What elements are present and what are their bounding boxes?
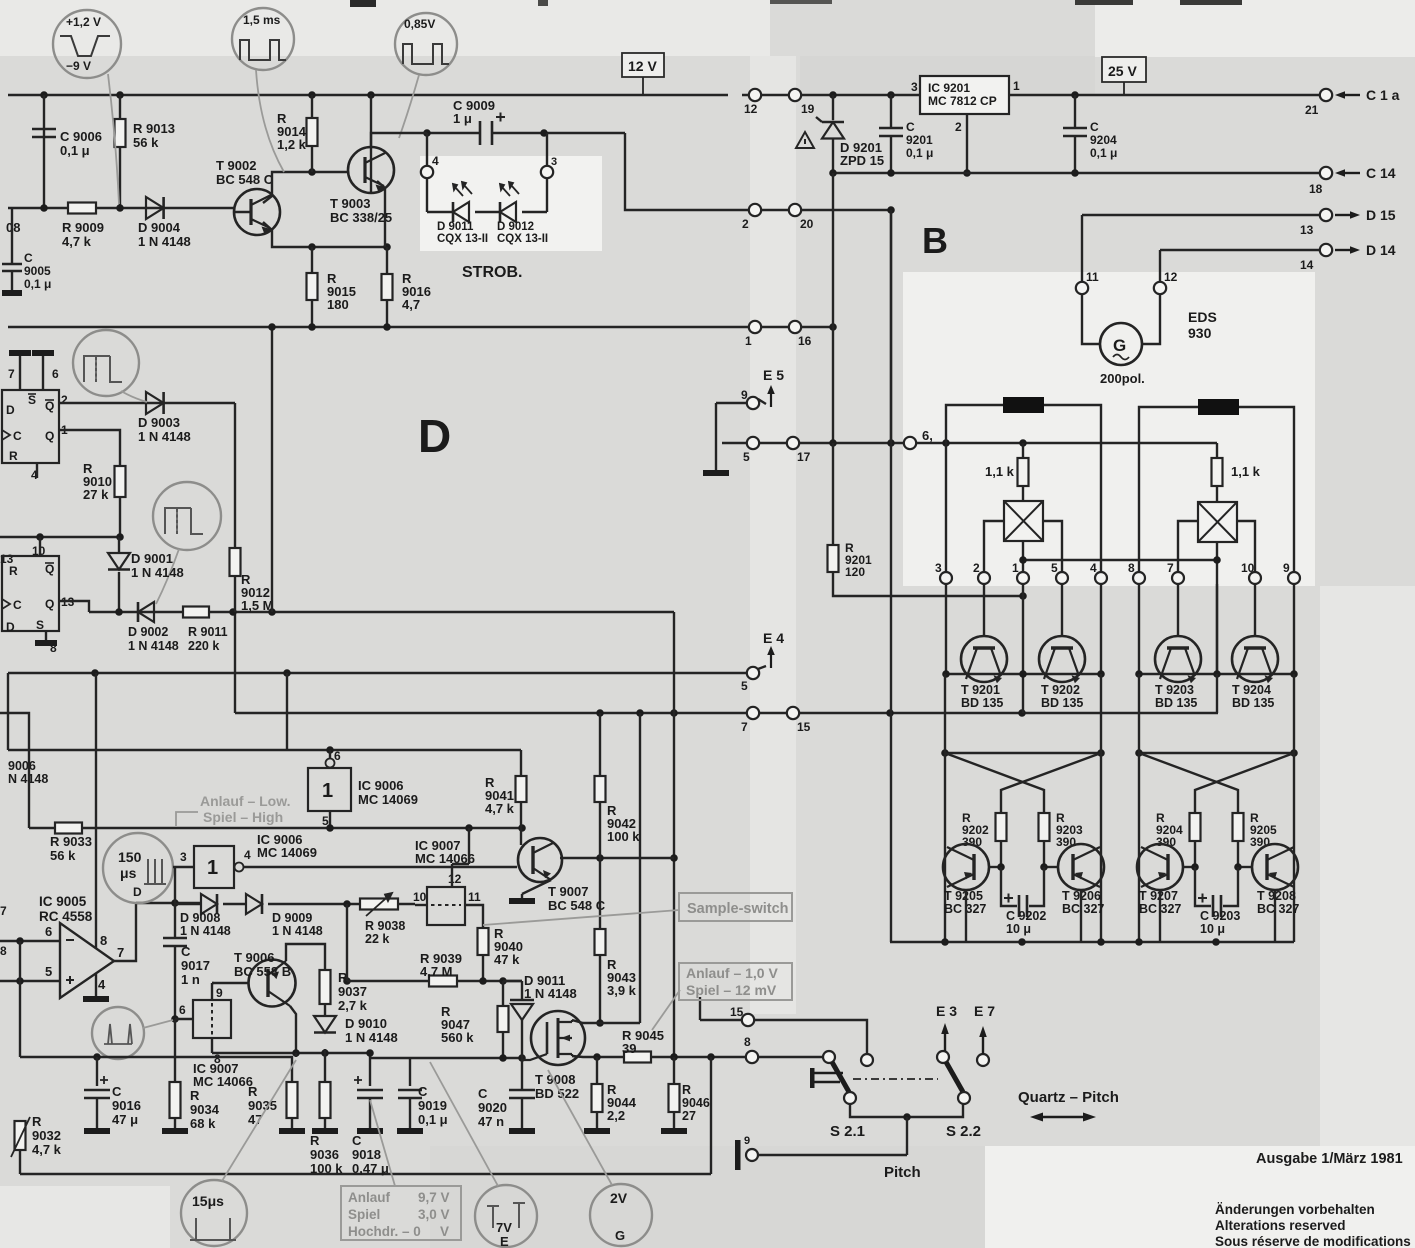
svg-text:R: R <box>32 1114 42 1129</box>
svg-text:2: 2 <box>742 217 749 231</box>
junction emitter bus x=946 <box>942 670 950 678</box>
wire ff2 pin S stub <box>45 631 47 640</box>
svg-text:Anlauf – 1,0 V: Anlauf – 1,0 V <box>686 965 778 981</box>
junction R9044 top <box>593 1053 601 1061</box>
svg-text:+1,2 V: +1,2 V <box>66 15 101 29</box>
svg-text:200pol.: 200pol. <box>1100 371 1145 386</box>
svg-text:RC 4558: RC 4558 <box>39 909 93 924</box>
wire <box>398 903 415 905</box>
svg-text:T 9002: T 9002 <box>216 158 256 173</box>
wire right coil left end <box>1139 407 1198 444</box>
wire to pin 9 <box>716 402 747 404</box>
wire R9047 top <box>502 981 504 1006</box>
junction R9047/1058 <box>499 1054 507 1062</box>
svg-text:1,1 k: 1,1 k <box>985 464 1015 479</box>
wire <box>8 326 748 328</box>
wire <box>212 982 214 984</box>
wire pin9 join <box>211 983 213 985</box>
gray box Anlauf/Spiel levels <box>679 963 792 1000</box>
svg-text:E 4: E 4 <box>763 630 784 646</box>
resistor R9046 <box>669 1084 680 1112</box>
pointer 7V circle <box>430 1062 498 1186</box>
LED arrows D9012 <box>500 182 519 196</box>
wire D9003 to R9012 <box>234 403 236 548</box>
gray box Sample-switch <box>679 893 792 921</box>
wire C9020 bottom <box>521 1098 523 1128</box>
waveform circle D2 <box>153 482 221 550</box>
wire ff1 pin 4 stub <box>36 463 38 478</box>
waveform pulse 0,85V <box>403 44 449 64</box>
junction cell right a <box>1135 749 1143 757</box>
wire zener bottom <box>832 139 834 173</box>
svg-text:CQX 13-II: CQX 13-II <box>497 233 548 245</box>
switch S2.1 open contact <box>861 1054 873 1066</box>
capacitor C9020 <box>509 1090 535 1098</box>
wire R9032 bottom <box>19 1150 21 1174</box>
wire <box>597 1056 624 1058</box>
junction collector/R9035 <box>292 1049 300 1057</box>
wire T9205 emitter drop <box>965 890 967 942</box>
wire <box>175 1018 193 1020</box>
svg-text:47 μ: 47 μ <box>112 1112 138 1127</box>
capacitor C9201 <box>879 128 903 136</box>
transistor T9006 BC558 <box>249 960 296 1007</box>
svg-text:S: S <box>36 618 44 632</box>
wire pin1 to bus and 713 <box>1022 584 1024 713</box>
junction zener/C14 <box>829 169 837 177</box>
capacitor C9016 <box>84 1090 110 1098</box>
wire ff2 pin 10 stub <box>39 537 41 556</box>
arrow D 15 <box>1335 214 1350 216</box>
junction box bottom left <box>1019 556 1027 564</box>
wire 9 to arrow <box>758 399 766 404</box>
junction D9010/R9036 <box>321 1049 329 1057</box>
capacitor C9202 <box>1019 895 1027 917</box>
connector pin 14 <box>1320 244 1332 256</box>
junction x891/443 <box>887 439 895 447</box>
connector pin 5 <box>747 437 759 449</box>
wire pin2 to T9201 base <box>983 584 985 636</box>
svg-text:17: 17 <box>797 450 811 464</box>
wire from anlauf box <box>699 997 701 1020</box>
wire strobe branch to connector 2 <box>625 133 748 210</box>
svg-text:2,7 k: 2,7 k <box>338 998 368 1013</box>
svg-text:Anlauf – Low.: Anlauf – Low. <box>200 793 290 809</box>
wire C9201 bottom <box>890 136 892 173</box>
wire pin4 drop <box>1100 443 1102 572</box>
junction R9040/R9039 <box>479 977 487 985</box>
svg-text:R 9009: R 9009 <box>62 220 104 235</box>
wire pin 9 stub <box>211 985 213 1000</box>
junction R9046 x <box>670 1053 678 1061</box>
wire <box>522 211 547 213</box>
wire ff1 Q to R9010 <box>59 430 120 466</box>
wire R9202 to base <box>1000 841 1002 867</box>
svg-text:C: C <box>418 1084 428 1099</box>
connector pin 13 <box>1320 209 1332 221</box>
svg-text:STROB.: STROB. <box>462 264 522 281</box>
svg-text:Pitch: Pitch <box>884 1164 921 1181</box>
junction inverter B pin 6 <box>326 746 334 754</box>
svg-text:150: 150 <box>118 849 142 865</box>
svg-text:18: 18 <box>1309 182 1323 196</box>
junction R9013/bus <box>116 91 124 99</box>
ground op-amp <box>83 996 109 1002</box>
svg-text:7V: 7V <box>496 1220 512 1235</box>
pointer D2 <box>156 549 179 604</box>
wire right box tap to pin 7 <box>1178 521 1198 572</box>
junction T9003 emitter/R9016 <box>383 243 391 251</box>
svg-text:C: C <box>352 1133 362 1148</box>
wire left box tap to pin 5 <box>1043 521 1062 572</box>
wire pin3 to bus <box>945 584 947 674</box>
svg-text:R 9011: R 9011 <box>188 625 228 639</box>
wire R9037 to D9010 <box>324 1004 326 1016</box>
capacitor C9019 <box>398 1090 422 1098</box>
svg-text:56 k: 56 k <box>133 135 159 150</box>
wire left edge vertical lower <box>7 673 9 750</box>
svg-text:5: 5 <box>741 679 748 693</box>
wire x1101 to bottom bus <box>1100 753 1102 942</box>
svg-text:C: C <box>112 1084 122 1099</box>
svg-text:12: 12 <box>1164 270 1178 284</box>
waveform 7V <box>487 1203 525 1228</box>
motor terminal 11 <box>1076 282 1088 294</box>
svg-text:2: 2 <box>61 393 68 407</box>
wire ff1 pin 7 stub <box>19 356 21 390</box>
waveform circle 2V G <box>590 1184 652 1246</box>
plus sign C9203 <box>1198 894 1207 903</box>
wire C9016 top <box>96 1057 98 1086</box>
wire <box>1044 866 1058 868</box>
svg-text:15: 15 <box>730 1005 744 1019</box>
wire R9040 bottom <box>482 955 484 981</box>
resistor R9203 390 <box>1039 813 1050 841</box>
connector pin 1 <box>1017 572 1029 584</box>
arrow C 14 <box>1345 172 1360 174</box>
junction x890/713 <box>886 709 894 717</box>
wire cross diagonal left cell B <box>1001 753 1101 813</box>
svg-text:T 9208: T 9208 <box>1257 889 1296 903</box>
inverter bubble B <box>326 759 335 768</box>
wire R9205 to base <box>1237 841 1239 867</box>
IC flip-flop box 1 <box>2 390 59 463</box>
wire drop x287 <box>286 673 288 750</box>
svg-text:Änderungen vorbehalten: Änderungen vorbehalten <box>1215 1202 1375 1217</box>
svg-text:MC 14069: MC 14069 <box>358 792 418 807</box>
junction C9017 top <box>171 899 179 907</box>
wire right box bottom <box>1216 542 1218 674</box>
bracket anlauf note <box>176 812 198 826</box>
wire drop x1139 <box>1138 674 1140 753</box>
wire pin 12 stub <box>451 864 453 887</box>
svg-text:1,2 k: 1,2 k <box>277 137 307 152</box>
LED D9011 <box>453 202 469 222</box>
ground ff2 <box>35 640 57 646</box>
wire to LED pin 3 <box>546 133 548 166</box>
connector pin 8 <box>1133 572 1145 584</box>
wire <box>235 712 747 714</box>
wire 5 to arrow E4 <box>758 666 766 669</box>
resistor R9013 <box>115 119 126 147</box>
svg-text:D 9011: D 9011 <box>437 221 474 233</box>
resistor R9047 <box>498 1006 509 1032</box>
svg-text:Spiel – High: Spiel – High <box>203 809 283 825</box>
svg-text:MC 7812 CP: MC 7812 CP <box>928 94 997 108</box>
wire bus IC9201 pin 1 to connector 21 <box>1009 94 1320 96</box>
light right edge strip <box>1320 586 1415 1146</box>
wire 15 to emitter bus <box>799 712 1218 714</box>
capacitor C9009 <box>480 121 492 145</box>
svg-text:D: D <box>6 403 15 417</box>
junction B feed <box>887 206 895 214</box>
plus sign C9009 <box>496 113 505 122</box>
wire <box>0 940 60 942</box>
wire R9034 top <box>174 1019 176 1082</box>
svg-text:D 9001: D 9001 <box>131 551 173 566</box>
resistor R9033 <box>55 823 82 834</box>
svg-text:12: 12 <box>744 102 758 116</box>
svg-text:1: 1 <box>745 334 752 348</box>
resistor R9042 <box>595 776 606 802</box>
connector pin 7 <box>747 707 759 719</box>
waveform trapezoid <box>60 36 110 56</box>
transistor T9008 BD522 MOSFET <box>531 1011 585 1065</box>
wire pin7 to T9203 base <box>1177 584 1179 636</box>
clock caret ff2 <box>2 599 10 609</box>
terminal q <box>746 1149 758 1161</box>
junction R9014/bus <box>308 91 316 99</box>
wire <box>20 1056 282 1058</box>
svg-text:10 μ: 10 μ <box>1006 922 1031 936</box>
wire right box bottom to bus <box>1216 584 1218 674</box>
svg-text:D: D <box>418 410 451 462</box>
wire <box>850 1104 963 1117</box>
svg-text:T 9207: T 9207 <box>1139 889 1178 903</box>
wire x674 vertical <box>673 612 675 1057</box>
svg-text:22 k: 22 k <box>365 932 389 946</box>
connector pin 9 <box>1288 572 1300 584</box>
wire D15 to pin 11 <box>1081 215 1083 282</box>
overbar Qbar ff1 <box>45 399 54 401</box>
svg-text:D: D <box>133 885 142 899</box>
svg-text:3: 3 <box>180 850 187 864</box>
junction C9006/input <box>40 204 48 212</box>
wire <box>833 172 1320 174</box>
arrow emitter T9007 <box>543 870 551 878</box>
ground R9034 <box>162 1128 188 1134</box>
svg-text:4,7 k: 4,7 k <box>62 234 92 249</box>
wire C9005 to ground <box>11 271 13 290</box>
wire D9001 bottom <box>118 572 120 612</box>
wire <box>59 402 235 404</box>
wire <box>457 980 522 982</box>
diode D9010 <box>314 1016 336 1033</box>
terminal pin 3 <box>541 166 553 178</box>
svg-text:9020: 9020 <box>478 1100 507 1115</box>
junction x272/327 <box>268 323 276 331</box>
svg-text:0,1 μ: 0,1 μ <box>906 146 933 160</box>
svg-text:BD 135: BD 135 <box>1232 696 1274 710</box>
wire <box>347 980 395 982</box>
svg-text:1 N 4148: 1 N 4148 <box>138 234 191 249</box>
wire D9010 to R9036 <box>324 1049 326 1082</box>
arrow E3 <box>944 1034 946 1051</box>
wire base T9206 to C9202 <box>1029 867 1044 906</box>
junction drain line <box>596 1019 604 1027</box>
wire R9014 bottom <box>311 146 313 172</box>
ground C9016 <box>84 1128 110 1134</box>
wire right coil right end <box>1239 407 1294 444</box>
svg-text:4,7 k: 4,7 k <box>32 1142 62 1157</box>
transistor T9204 BD135 <box>1232 636 1278 682</box>
junction pin12 drop <box>465 824 473 832</box>
svg-text:1 N 4148: 1 N 4148 <box>524 986 577 1001</box>
junction cell left a <box>941 749 949 757</box>
junction R9016/line 327 <box>383 323 391 331</box>
resistor R9045 <box>624 1052 651 1063</box>
capacitor C9017 <box>163 938 187 946</box>
plus sign C9016 <box>100 1076 108 1084</box>
wire ff2 Q out <box>59 601 89 612</box>
connector pin 2 <box>978 572 990 584</box>
resistor R9014 <box>307 118 318 146</box>
svg-text:C 9203: C 9203 <box>1200 909 1240 923</box>
coil left (motor winding) <box>1003 397 1044 413</box>
wire left coil left end <box>946 405 1003 443</box>
svg-text:1 N 4148: 1 N 4148 <box>272 924 323 938</box>
zener tail <box>816 117 822 122</box>
wire <box>1160 249 1320 251</box>
IC 9201 regulator box <box>920 76 1009 114</box>
svg-text:9201: 9201 <box>906 133 933 147</box>
wire drain line <box>572 1020 640 1023</box>
junction 673 b <box>283 669 291 677</box>
svg-text:9035: 9035 <box>248 1098 277 1113</box>
wire T9006 emitter to R9037 <box>286 944 325 970</box>
waveform pulse D2 <box>165 508 203 534</box>
connector pin 2 <box>749 204 761 216</box>
wire between 2 and 20 <box>761 209 788 211</box>
junction box bottom right <box>1213 556 1221 564</box>
svg-text:6: 6 <box>334 749 341 763</box>
wire pin3 drop <box>945 443 947 572</box>
wire R9014 top <box>311 95 313 118</box>
clock caret ff1 <box>2 430 10 440</box>
wire to D9001 <box>118 537 120 553</box>
wire 1.1k left to box <box>1022 486 1024 501</box>
svg-text:R: R <box>9 449 18 463</box>
svg-text:C: C <box>24 251 33 265</box>
connector pin 6 <box>904 437 916 449</box>
svg-text:3: 3 <box>911 80 918 94</box>
wire R9034 bottom <box>174 1118 176 1128</box>
wire R9010 bottom <box>119 497 121 537</box>
wire <box>492 132 625 134</box>
IC 9007 analog switch box 1 <box>193 1000 231 1038</box>
waveform 15us <box>190 1218 236 1240</box>
svg-text:μs: μs <box>120 865 137 881</box>
wire pin12 feed <box>468 828 470 864</box>
svg-text:1 N 4148: 1 N 4148 <box>180 924 231 938</box>
wire R9012 bottom <box>234 576 236 612</box>
pointer from waveform circle 1 <box>108 74 119 204</box>
wire vertical x833 lower <box>832 327 834 443</box>
resistor R9043 <box>595 929 606 955</box>
wire pin4 to bus <box>1100 584 1102 674</box>
IC flip-flop box 2 <box>2 556 59 631</box>
wire C9201 top <box>890 95 892 128</box>
wire C9019 top <box>409 1058 411 1086</box>
svg-text:D 9002: D 9002 <box>128 625 168 639</box>
pointer sample switch <box>483 910 679 925</box>
junction x674/713 <box>670 709 678 717</box>
connector E7 pad <box>977 1054 989 1066</box>
top edge scan artifact 4 <box>1180 0 1242 5</box>
capacitor C9005 <box>2 264 22 271</box>
diode D9003 <box>146 392 164 414</box>
junction C9016 <box>93 1053 101 1061</box>
svg-text:1: 1 <box>1013 79 1020 93</box>
transistor T9208 BC327 <box>1252 844 1298 890</box>
connector pin 5 E4 <box>747 667 759 679</box>
junction R9038 left <box>343 900 351 908</box>
wire T9207 emitter drop <box>1159 890 1161 942</box>
wire pin8 drop <box>1138 444 1140 572</box>
svg-text:T 9007: T 9007 <box>548 884 588 899</box>
svg-text:C: C <box>181 944 191 959</box>
junction C9204/bus <box>1071 91 1079 99</box>
svg-text:27: 27 <box>682 1109 696 1123</box>
connector pin 20 <box>789 204 801 216</box>
wire E5 branch <box>715 403 717 443</box>
wire R9204 to base <box>1194 841 1196 867</box>
top edge scan artifact 1 <box>350 0 376 7</box>
svg-text:6: 6 <box>179 1003 186 1017</box>
svg-text:2V: 2V <box>610 1190 628 1206</box>
wire cross diagonal right cell B <box>1195 753 1294 813</box>
wire motor right lead <box>1142 294 1160 344</box>
plus sign C9202 <box>1004 894 1013 903</box>
svg-text:15μs: 15μs <box>192 1193 224 1209</box>
waveform pulse D1 <box>84 356 122 382</box>
svg-text:4: 4 <box>1090 561 1097 575</box>
wire R9043 bottom <box>599 955 601 1023</box>
svg-text:−9 V: −9 V <box>66 59 91 73</box>
wire collector join <box>295 1053 297 1057</box>
svg-text:9046: 9046 <box>682 1096 710 1110</box>
svg-text:1 N 4148: 1 N 4148 <box>345 1030 398 1045</box>
svg-text:Quartz – Pitch: Quartz – Pitch <box>1018 1089 1119 1106</box>
junction C9006/bus <box>40 91 48 99</box>
wire <box>370 1057 410 1059</box>
wire op-amp pin 4 <box>95 973 97 996</box>
svg-text:C 9006: C 9006 <box>60 129 102 144</box>
LED arrows D9011 <box>453 182 472 196</box>
resistor R9011 <box>183 607 209 618</box>
wire pin9 drop <box>1293 444 1295 572</box>
wire C9204 bottom <box>1074 136 1076 173</box>
ground C9019 <box>397 1128 423 1134</box>
svg-text:9032: 9032 <box>32 1128 61 1143</box>
wire long vertical x891 <box>890 210 892 942</box>
wire base T9207 to C9203 <box>1195 867 1211 906</box>
junction base T9207 <box>1191 863 1199 871</box>
svg-text:56 k: 56 k <box>50 848 76 863</box>
junction left bus drop <box>1018 709 1026 717</box>
svg-text:1 n: 1 n <box>181 972 200 987</box>
svg-text:R: R <box>310 1133 320 1148</box>
